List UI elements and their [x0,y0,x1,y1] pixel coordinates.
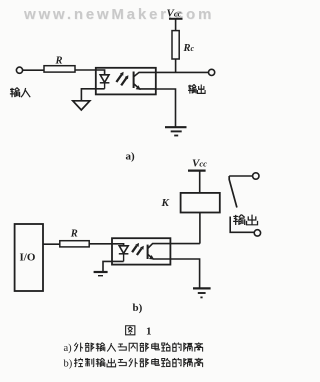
light arrow 2 (circuit a) [121,78,126,85]
caption 图 1 [126,326,135,335]
label 输出 (circuit a) [188,84,205,93]
earth ground (circuit b) [193,287,211,289]
input terminal circle [16,67,22,73]
resistor Rc [172,31,179,59]
phototransistor emitter (circuit b) [148,254,171,259]
svg-text:Rc: Rc [183,43,195,54]
output terminal circle (circuit a) [209,69,215,75]
phototransistor emitter (circuit a) [134,84,156,89]
I/O box [15,224,43,291]
resistor R (circuit b) [60,241,89,247]
LED anode wire inside box (circuit b) [112,244,124,246]
svg-text:R: R [55,56,63,67]
wire Vcc to relay coil [199,171,201,193]
earth ground (circuit a) [165,126,187,128]
svg-text:1: 1 [146,326,152,338]
wire R to optocoupler [75,69,96,71]
emitter wire to ground [156,89,176,127]
resistor R (circuit a) [44,66,75,72]
LED diode triangle (circuit b) [119,246,128,254]
svg-text:R: R [70,228,78,239]
collector wire to relay node (circuit b) [170,243,200,245]
phototransistor base bar (circuit b) [147,245,149,259]
svg-text:Vcc: Vcc [167,8,182,20]
cathode exit wire to ground arrow [81,89,104,101]
light arrow 2 (circuit b) [137,249,142,256]
emitter wire to ground (circuit b) [170,259,199,288]
LED anode wire inside box [96,70,105,75]
wire Rc to output node [175,59,177,72]
watermark www.newMaker.com [24,6,214,23]
relay contact top terminal circle [253,173,259,179]
light arrow 1 (circuit b) [132,246,137,253]
optocoupler U1 box (circuit a) [96,68,156,95]
signal-ground hollow arrow (circuit a) [73,101,90,110]
svg-text:a): a) [64,343,73,354]
LED cathode bar [100,82,110,84]
relay contact bottom terminal circle [254,230,260,236]
phototransistor collector (circuit a) [134,72,156,76]
light arrow 1 (circuit a) [116,75,121,82]
Vcc power bar (circuit b) [188,170,206,172]
svg-text:a): a) [126,151,136,163]
contact switch arm [229,176,237,208]
collector/output wire to terminal [156,71,209,73]
LED cathode bar (circuit b) [119,253,129,255]
wire input to R [23,69,44,71]
svg-text:I/O: I/O [20,252,36,264]
wire I/O to R [43,243,60,245]
svg-text:Vcc: Vcc [192,157,207,169]
wire Vcc to Rc [175,19,177,31]
cathode exit wire to ground (circuit b) [103,261,124,271]
LED cathode vertical [104,83,106,89]
LED cathode vertical (circuit b) [123,254,125,262]
phototransistor collector (circuit b) [148,244,171,249]
wire relay to collector node [199,213,201,244]
Vcc power bar (circuit a) [169,18,183,20]
svg-text:b): b) [133,302,143,314]
label 输入 [10,88,30,98]
svg-text:K: K [161,197,170,209]
contact top wire [229,175,252,177]
wire R to optocoupler (circuit b) [89,243,112,245]
optocoupler U2 box (circuit b) [112,238,170,264]
svg-text:b): b) [64,359,73,370]
phototransistor base bar (circuit a) [133,72,135,89]
LED diode triangle (circuit a) [100,75,109,83]
signal ground bar (circuit b) [94,271,108,273]
relay coil K box [181,193,220,213]
label 输出 (contact output) [233,215,257,226]
contact bottom terminal wire [230,217,254,233]
